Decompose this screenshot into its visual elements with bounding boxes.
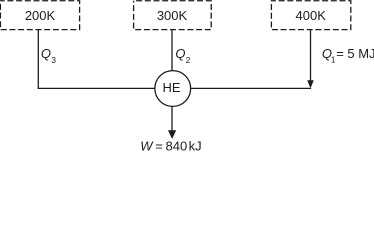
svg-text:W: W (140, 139, 154, 151)
label Q2 (175, 46, 190, 65)
svg-text:840: 840 (166, 139, 188, 151)
label W = 840 kJ (140, 139, 201, 154)
svg-text:= 5 MJ: = 5 MJ (336, 46, 374, 61)
svg-text:2: 2 (186, 55, 191, 65)
svg-text:400K: 400K (296, 8, 327, 23)
wire W output vertical from HE (171, 106, 173, 130)
wire Q1 horizontal from elbow to HE (190, 87, 311, 89)
heat engine circle HE (155, 71, 191, 107)
arrowhead W down (168, 130, 176, 139)
svg-text:300K: 300K (157, 8, 188, 23)
wire Q2 vertical from 300K box to HE (171, 30, 173, 71)
wire Q1 vertical from 400K box (310, 30, 312, 81)
svg-text:=: = (155, 139, 163, 151)
svg-text:1: 1 (331, 55, 336, 65)
svg-text:3: 3 (51, 55, 56, 65)
svg-text:Q: Q (41, 46, 51, 61)
reservoir box 300K (134, 1, 212, 30)
svg-text:HE: HE (162, 80, 180, 95)
reservoir box 400K (271, 1, 350, 30)
arrowhead Q1 down (307, 80, 314, 88)
reservoir box 200K (0, 1, 79, 30)
label Q3 (41, 46, 56, 65)
svg-text:Q: Q (175, 46, 185, 61)
label Q1 = 5 MJ (322, 46, 374, 65)
wire Q3 vertical from 200K box (37, 30, 39, 89)
svg-text:kJ: kJ (189, 139, 202, 151)
svg-text:200K: 200K (25, 8, 56, 23)
wire Q3 horizontal to HE (38, 87, 156, 89)
